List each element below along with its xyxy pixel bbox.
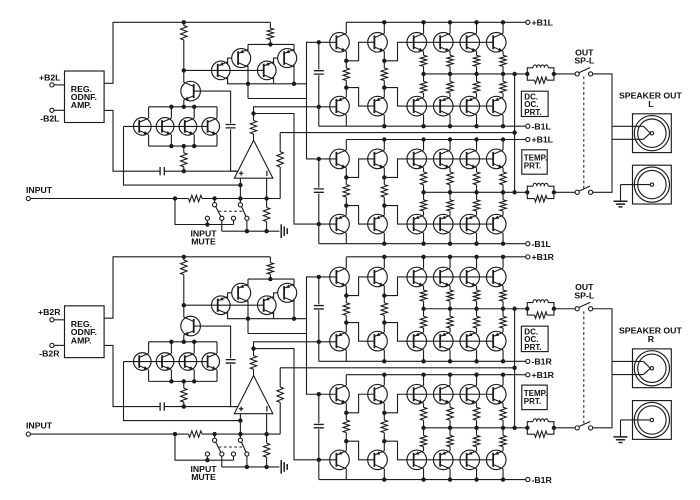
- junction pre-driver cap top: [317, 40, 321, 44]
- transistor Q222b (output npn): [460, 384, 480, 404]
- transistor Q6b (bias quad): [134, 353, 152, 371]
- wire -B1L rail bank2: [319, 243, 526, 245]
- wire node to emitter res c3 bank2: [502, 192, 504, 200]
- transistor Q311b (output pnp): [433, 331, 453, 351]
- svg-text:PRT.: PRT.: [524, 108, 541, 117]
- inductor L1b: [527, 303, 533, 309]
- wire driver pnp leads bank2: [383, 441, 385, 479]
- transistor Q4b (diff pnp): [278, 283, 297, 302]
- wire driver res leads bank2: [383, 177, 385, 205]
- resistor R10b1: [343, 303, 349, 316]
- wire driver res leads bank2: [383, 413, 385, 441]
- wire output npn leads c0 bank2: [423, 375, 425, 408]
- svg-text:MUTE: MUTE: [191, 236, 216, 246]
- junction op-amp out node: [251, 111, 255, 115]
- wire REG pin to coupling cap: [104, 345, 160, 406]
- wire terminal +B2R to REG box: [54, 319, 65, 321]
- wire output pnp leads c3 bank1: [502, 93, 504, 126]
- mute contact stub 2: [239, 434, 241, 438]
- wire pre-driver res leads bank1: [345, 61, 347, 88]
- resistor R222b (emitter): [473, 407, 479, 420]
- wire quad emitter bus: [149, 380, 217, 382]
- resistor R222a (emitter): [473, 172, 479, 185]
- wire feedback resistor leads: [279, 133, 281, 199]
- resistor R11a1: [381, 68, 387, 81]
- wire REG pin to +B rail: [104, 22, 270, 83]
- wire driver emitter top bank1: [383, 51, 385, 61]
- wire pre-driver emitter top bank1: [345, 286, 347, 296]
- wire output pnp leads c0 bank1: [423, 328, 425, 361]
- junction R1 top: [182, 255, 186, 259]
- wire step to output bases top bank1: [384, 42, 493, 61]
- transistor Q213a (output npn): [486, 33, 506, 53]
- transistor Q9a (bias quad): [202, 118, 220, 136]
- mute lower contact 2: [231, 216, 235, 220]
- wire pre-driver res leads bank1: [345, 296, 347, 323]
- resistor R3b (quad emitter): [183, 381, 185, 388]
- mute lever contact 2: [245, 452, 249, 456]
- wire node to emitter res c2 bank2: [476, 428, 478, 436]
- wire diff emitter bus: [248, 43, 294, 45]
- mute lever 2: [241, 206, 246, 216]
- mute link dashed: [219, 446, 244, 448]
- junction node bus bank2: [421, 190, 425, 194]
- wire C4 vertical: [318, 394, 320, 460]
- svg-text:-B2L: -B2L: [40, 113, 60, 123]
- wire emitter res to node c3 bank1: [502, 301, 504, 309]
- wire -B rail left end: [318, 342, 320, 362]
- wire driver collector top bank1: [383, 22, 385, 33]
- transistor Q11b2 (pre-driver pnp): [330, 450, 350, 470]
- wire output npn leads c3 bank2: [502, 375, 504, 408]
- transistor Q212a (output npn): [460, 33, 480, 53]
- wire input bypass loop: [175, 199, 207, 225]
- wire R1 to VAS collector node: [183, 40, 185, 70]
- speaker terminal - b: [633, 401, 672, 440]
- wire driver res leads bank1: [383, 61, 385, 88]
- transistor Q312a (output pnp): [460, 96, 480, 116]
- transistor Q321a (output pnp): [433, 214, 453, 234]
- junction node bus bank1: [421, 307, 425, 311]
- ground G1a: [281, 224, 287, 238]
- wire output npn leads c2 bank1: [476, 257, 478, 290]
- wire output npn leads c2 bank2: [476, 375, 478, 408]
- wire output npn leads c0 bank1: [423, 22, 425, 55]
- svg-text:-B1R: -B1R: [532, 357, 553, 367]
- wire pre-driver emitter top bank1: [345, 51, 347, 61]
- wire driver res leads bank1: [383, 296, 385, 323]
- terminal +B1L bank2: [526, 137, 530, 141]
- svg-text:-B2R: -B2R: [39, 349, 60, 359]
- capacitor C1a: [226, 125, 236, 128]
- wire node to emitter res c2 bank2: [476, 192, 478, 200]
- wire emitter res to node c1 bank2: [449, 420, 451, 428]
- junction R2 bottom: [268, 42, 272, 46]
- wire node to emitter res c0 bank2: [423, 428, 425, 436]
- resistor R320a (emitter): [420, 200, 426, 211]
- wire R2 to diff emitter bus: [269, 274, 271, 279]
- wire pre-driver pnp emitter bank2: [345, 441, 347, 451]
- junction driver e1 bank2: [382, 175, 386, 179]
- resistor R313b (emitter): [500, 316, 506, 328]
- mute lever contact 1: [220, 216, 224, 220]
- wire diff collector node: [228, 77, 307, 84]
- wire filter1 to switch: [554, 308, 576, 310]
- ground G1b: [281, 460, 287, 474]
- junction -B rail bank1: [382, 359, 386, 363]
- wire op-amp - input stub: [266, 178, 268, 198]
- wire switch outputs join: [593, 309, 612, 428]
- wire +B1R rail bank2: [346, 374, 525, 376]
- wire pre-driver pnp emitter bank2: [345, 206, 347, 216]
- wire switch outputs join: [593, 74, 612, 192]
- wire VAS base: [194, 326, 231, 358]
- wire VAS collector: [183, 305, 185, 317]
- resistor R320b (emitter): [420, 435, 426, 446]
- wire driver pnp leads bank1: [383, 323, 385, 362]
- junction pre-driver e2 bank1: [344, 85, 348, 89]
- transistor Q11b1 (pre-driver pnp): [330, 331, 350, 351]
- transistor Q313a (output pnp): [486, 96, 506, 116]
- terminal +B1L bank1: [526, 20, 530, 24]
- relay link dashed: [583, 311, 585, 425]
- wire op-amp output up: [253, 114, 255, 141]
- resistor R310a (emitter): [420, 81, 426, 93]
- transistor Q5a (VAS): [181, 81, 201, 101]
- resistor R220a (emitter): [420, 172, 426, 185]
- wire step to output bases bottom bank1: [384, 323, 493, 342]
- terminal -B2L: [50, 108, 54, 112]
- wire output pnp leads c2 bank1: [476, 328, 478, 361]
- svg-text:INPUT: INPUT: [26, 185, 53, 195]
- wire step to output bases bottom bank1: [384, 88, 493, 107]
- transistor Q310b (output pnp): [407, 331, 427, 351]
- svg-text:-B1L: -B1L: [532, 121, 552, 131]
- transistor Q313b (output pnp): [486, 331, 506, 351]
- svg-text:-B1R: -B1R: [532, 475, 553, 485]
- terminal INPUT b: [26, 432, 30, 436]
- wire output pnp leads c2 bank1: [476, 93, 478, 126]
- wire output pnp leads c3 bank2: [502, 447, 504, 480]
- transistor Q10b2 (pre-driver npn): [330, 384, 350, 404]
- wire +B1L rail bank1: [346, 21, 525, 23]
- wire out node to lower driver base: [254, 349, 337, 460]
- wire pre-driver collector bottom bank1: [345, 350, 347, 361]
- junction +B rail bank1: [382, 255, 386, 259]
- transistor Q210a (output npn): [407, 33, 427, 53]
- wire quad collector bus: [149, 106, 217, 108]
- svg-text:L: L: [648, 99, 654, 109]
- mute lower contact 1: [205, 216, 209, 220]
- wire R3 to cap wire: [183, 167, 185, 171]
- wire node to emitter res c1 bank2: [449, 192, 451, 200]
- inductor L1a: [527, 68, 533, 74]
- capacitor C4b: [314, 424, 324, 427]
- wire output npn leads c3 bank1: [502, 257, 504, 290]
- wire terminal -B2R to REG box: [54, 344, 65, 346]
- junction input line: [173, 432, 177, 436]
- transistor Q13b1 (driver pnp): [368, 331, 388, 351]
- svg-text:-B1L: -B1L: [532, 239, 552, 249]
- wire driver collector top bank2: [383, 140, 385, 151]
- terminal INPUT a: [26, 196, 30, 200]
- resistor R310b (emitter): [420, 316, 426, 328]
- resistor R210b (emitter): [420, 290, 426, 301]
- block REG ODNF AMP a: [65, 71, 105, 123]
- junction pre-driver e1 bank1: [344, 293, 348, 297]
- transistor Q310a (output pnp): [407, 96, 427, 116]
- wire lower -B rail left end: [318, 460, 320, 480]
- capacitor C2b (input coupling): [160, 402, 164, 410]
- junction R1 top: [182, 20, 186, 24]
- wire step to driver base top bank1: [346, 42, 374, 61]
- transistor Q213b (output npn): [486, 267, 506, 287]
- junction driver e2 bank1: [382, 320, 386, 324]
- wire op-amp + input stub: [239, 178, 241, 198]
- transistor Q220a (output npn): [407, 149, 427, 169]
- resistor R312a (emitter): [473, 81, 479, 93]
- wire base bus diff pair: [184, 304, 264, 306]
- junction node bus bank2: [421, 426, 425, 430]
- svg-text:+B1L: +B1L: [532, 18, 554, 28]
- junction -B rail bank2: [382, 242, 386, 246]
- wire diff collector node: [228, 311, 307, 318]
- wire input line: [30, 198, 280, 200]
- wire quad base bus: [124, 361, 208, 363]
- resistor R311b (emitter): [447, 316, 453, 328]
- wire output pnp leads c1 bank2: [449, 211, 451, 244]
- junction filter1 ends: [525, 307, 529, 311]
- resistor R322b (emitter): [473, 435, 479, 446]
- capacitor C1b: [226, 360, 236, 363]
- transistor Q3a (diff pnp): [258, 61, 277, 80]
- wire C3 vertical: [318, 42, 320, 107]
- wire -B1R rail bank1: [319, 360, 526, 362]
- wire terminal -B2L to REG box: [54, 109, 65, 111]
- resistor R213a (emitter): [500, 55, 506, 66]
- resistor R2Fb (damping): [527, 428, 534, 434]
- junction filter1 ends: [525, 72, 529, 76]
- wire step to output bases bottom bank2: [384, 441, 493, 460]
- wire emitter res to node c2 bank1: [476, 66, 478, 74]
- wire -B1R rail bank2: [319, 479, 526, 481]
- transistor Q320a (output pnp): [407, 214, 427, 234]
- capacitor C3a: [314, 71, 324, 74]
- terminal -B2R: [50, 343, 54, 347]
- svg-text:+B1L: +B1L: [532, 135, 554, 145]
- transistor Q13b2 (driver pnp): [368, 450, 388, 470]
- wire VAS base: [194, 91, 231, 123]
- resistor R10a1: [343, 68, 349, 81]
- wire output npn leads c1 bank2: [449, 140, 451, 172]
- wire step to output bases top bank2: [384, 394, 493, 413]
- wire pre-driver pnp emitter bank1: [345, 323, 347, 333]
- wire output pnp leads c3 bank1: [502, 328, 504, 361]
- wire output pnp leads c1 bank1: [449, 328, 451, 361]
- resistor R212a (emitter): [473, 55, 479, 66]
- transistor Q312b (output pnp): [460, 331, 480, 351]
- junction pre-driver e1 bank2: [344, 175, 348, 179]
- junction filter2 ends: [525, 190, 529, 194]
- junction lower pre-driver cap top: [317, 157, 321, 161]
- resistor R223b (emitter): [500, 407, 506, 420]
- wire Q4 emitter to bus: [293, 279, 295, 286]
- transistor Q12a2 (driver npn): [368, 149, 388, 169]
- wire node to emitter res c3 bank1: [502, 74, 504, 82]
- transistor Q12a1 (driver npn): [368, 33, 388, 53]
- block DC OC PRT a: [521, 91, 548, 116]
- wire step to driver base top bank2: [346, 394, 374, 413]
- resistor R213b (emitter): [500, 290, 506, 301]
- svg-text:+B2L: +B2L: [39, 72, 61, 82]
- wire emitter res to node c3 bank2: [502, 185, 504, 193]
- wire R2 to diff emitter bus: [269, 40, 271, 45]
- terminal -B1L bank2: [526, 242, 530, 246]
- transistor Q13a2 (driver pnp): [368, 214, 388, 234]
- wire pre-driver collector bottom bank1: [345, 115, 347, 126]
- transistor Q7b (bias quad): [156, 353, 174, 371]
- wire output pnp leads c2 bank2: [476, 211, 478, 244]
- wire driver pnp leads bank2: [383, 206, 385, 244]
- resistor R2a: [269, 22, 271, 28]
- resistor R1Fa (damping): [527, 74, 534, 80]
- resistor R4a (op-amp out): [250, 120, 256, 134]
- resistor R7a (feedback): [277, 152, 283, 167]
- terminal -B1R bank2: [526, 477, 530, 481]
- resistor R313a (emitter): [500, 81, 506, 93]
- wire emitter res to node c0 bank1: [423, 66, 425, 74]
- junction op-amp out node: [251, 346, 255, 350]
- wire node to emitter res c2 bank1: [476, 74, 478, 82]
- wire emitter res to node c3 bank2: [502, 420, 504, 428]
- junction R3 bottom: [182, 404, 186, 408]
- wire input line: [30, 433, 280, 435]
- wire pre-driver pnp emitter bank1: [345, 88, 347, 98]
- wire output pnp leads c0 bank2: [423, 447, 425, 480]
- junction VAS collector node: [182, 303, 186, 307]
- transistor Q13a1 (driver pnp): [368, 96, 388, 116]
- junction +B rail bank2: [382, 137, 386, 141]
- wire op-amp + input stub: [239, 414, 241, 434]
- transistor Q2a (diff pnp): [232, 49, 251, 68]
- relay switch S2b: [575, 426, 579, 430]
- wire +B1R rail bank1: [346, 256, 525, 258]
- transistor Q1a (diff pnp): [212, 61, 231, 80]
- junction lower pre-driver cap bottom: [317, 222, 321, 226]
- svg-text:+B1R: +B1R: [532, 252, 555, 262]
- wire VAS emitter: [183, 335, 185, 342]
- capacitor C3b: [314, 306, 324, 309]
- wire quad base loop to op-amp +: [124, 126, 241, 185]
- wire driver collector top bank1: [383, 257, 385, 268]
- svg-text:R: R: [648, 334, 655, 344]
- wire node to emitter res c1 bank1: [449, 74, 451, 82]
- wire filter2 to switch: [554, 191, 576, 193]
- wire cap to op-amp node: [164, 406, 238, 408]
- junction pre-driver e2 bank2: [344, 203, 348, 207]
- junction filter2 ends: [525, 426, 529, 430]
- transistor Q212b (output npn): [460, 267, 480, 287]
- wire emitter res to node c0 bank2: [423, 185, 425, 193]
- transistor Q220b (output npn): [407, 384, 427, 404]
- junction lower pre-driver cap top: [317, 392, 321, 396]
- resistor R212b (emitter): [473, 290, 479, 301]
- terminal +B1R bank2: [526, 373, 530, 377]
- wire output node bus bank1: [424, 308, 528, 310]
- wire R6 leads: [266, 434, 268, 467]
- wire step to driver base bottom bank1: [346, 88, 374, 107]
- wire quad collector bus: [149, 341, 217, 343]
- wire op-amp output up: [253, 349, 255, 376]
- op-amp U1b: [234, 376, 273, 414]
- relay switch S2a: [575, 190, 579, 194]
- wire out node to upper driver base: [254, 342, 337, 349]
- mute lever 1: [216, 442, 221, 452]
- junction driver e2 bank1: [382, 85, 386, 89]
- junction -B rail bank1: [382, 124, 386, 128]
- resistor R4b (op-amp out): [250, 356, 256, 370]
- resistor R321a (emitter): [447, 200, 453, 211]
- resistor R221a (emitter): [447, 172, 453, 185]
- wire VAS collector: [183, 70, 185, 82]
- wire step to driver base bottom bank2: [346, 206, 374, 225]
- wire R3 to cap wire: [183, 402, 185, 406]
- wire output sense vertical: [514, 74, 516, 192]
- resistor R6a (op-amp - to gnd): [263, 207, 269, 221]
- resistor R221b (emitter): [447, 407, 453, 420]
- wire out node to upper driver base: [254, 107, 337, 114]
- op-amp U1a: [234, 140, 273, 178]
- relay link dashed: [583, 77, 585, 190]
- junction lower pre-driver cap bottom: [317, 458, 321, 462]
- transistor Q10b1 (pre-driver npn): [330, 267, 350, 287]
- wire terminal +B2L to REG box: [54, 84, 65, 86]
- transistor Q323b (output pnp): [486, 450, 506, 470]
- wire Q4 emitter to bus: [293, 44, 295, 51]
- svg-text:INPUT: INPUT: [26, 421, 53, 431]
- speaker terminal + a: [633, 114, 672, 153]
- wire Q1 emitter to Q2 base: [228, 293, 232, 299]
- wire output npn leads c0 bank1: [423, 257, 425, 290]
- wire emitter res to node c3 bank1: [502, 66, 504, 74]
- wire output node bus bank1: [424, 73, 528, 75]
- resistor R11a2: [381, 185, 387, 198]
- junction bypass: [205, 222, 209, 226]
- resistor R5b (mute series): [189, 431, 203, 437]
- terminal +B1R bank1: [526, 255, 530, 259]
- wire C3 vertical: [318, 277, 320, 342]
- wire feedback resistor leads: [279, 368, 281, 434]
- wire output npn leads c1 bank2: [449, 375, 451, 408]
- wire +B1L rail bank2: [346, 139, 525, 141]
- wire lower cross link: [248, 332, 307, 334]
- transistor Q8b (bias quad): [179, 353, 197, 371]
- wire quad base loop to op-amp +: [124, 362, 241, 421]
- svg-text:SP-L: SP-L: [574, 290, 594, 300]
- inductor L2a: [527, 186, 533, 192]
- wire diff node to pre-driver bases: [307, 277, 337, 319]
- junction VAS collector node: [182, 68, 186, 72]
- wire output pnp leads c3 bank2: [502, 211, 504, 244]
- junction diff collectors: [246, 317, 250, 321]
- wire pre-driver emitter top bank2: [345, 403, 347, 413]
- resistor R1Fb (damping): [527, 309, 534, 315]
- svg-text:+B2R: +B2R: [38, 307, 61, 317]
- wire mute ground bus: [222, 230, 280, 232]
- wire output pnp leads c1 bank1: [449, 93, 451, 126]
- wire -B rail left end: [318, 107, 320, 126]
- wire Q3 emitter to Q4 base: [274, 58, 278, 64]
